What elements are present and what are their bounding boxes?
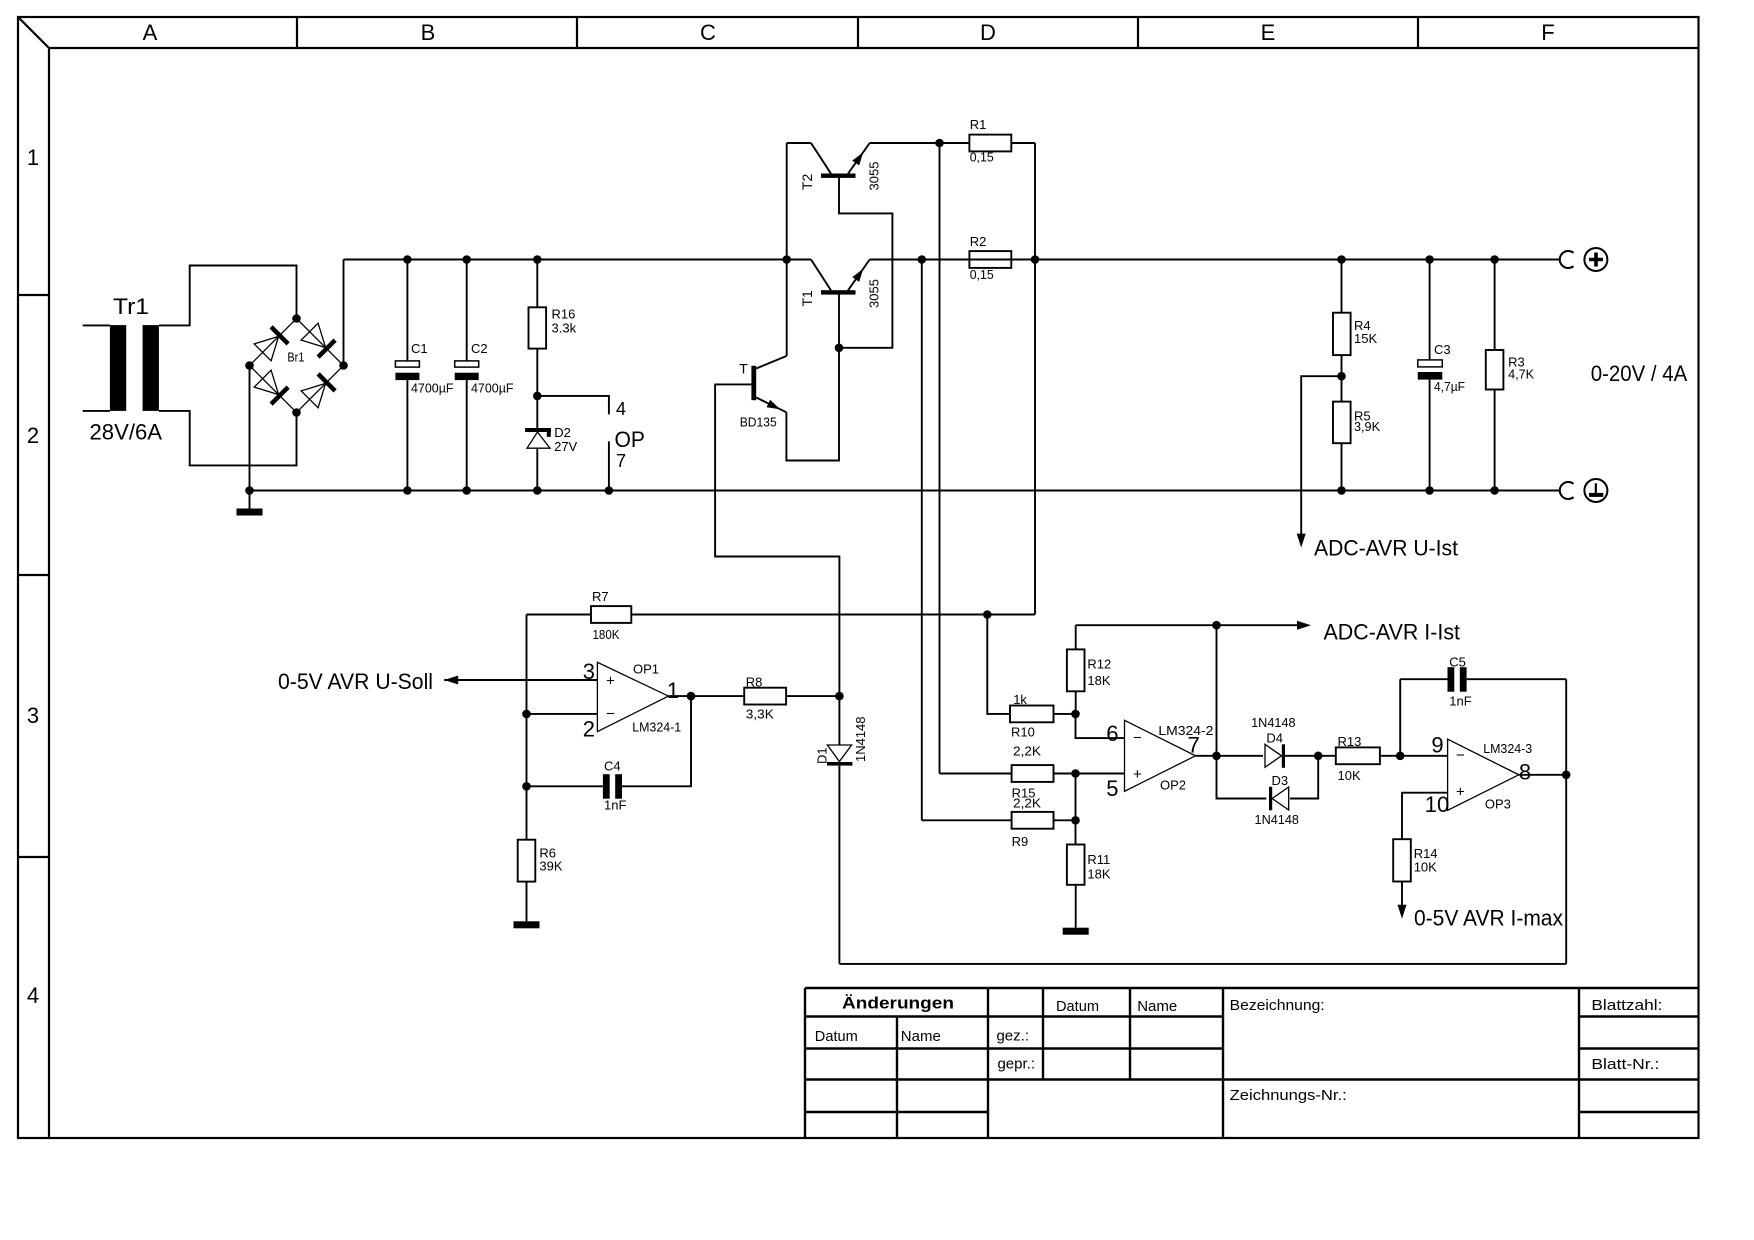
diode D3 cathode bar — [1269, 787, 1272, 811]
svg-text:D3: D3 — [1272, 773, 1289, 788]
svg-text:2: 2 — [27, 423, 39, 448]
capacitor C2 plates — [455, 361, 479, 367]
capacitor C1 leads — [406, 260, 408, 361]
svg-text:3,9K: 3,9K — [1354, 419, 1380, 434]
wire OP2 output up to I-Ist tap — [1216, 625, 1218, 756]
wire feedback vertical (R7/C4/R6 string) — [526, 615, 528, 840]
bridge diode upper-right — [301, 323, 325, 347]
wire OP1 pin3 input with arrow to AVR U-Soll — [444, 679, 597, 681]
svg-text:OP3: OP3 — [1485, 797, 1511, 812]
wire secondary bottom lead to bridge AC input — [159, 411, 297, 466]
wire T2 emitter to R1 — [870, 142, 970, 144]
resistor R9 — [1012, 812, 1054, 829]
resistor R11 — [1067, 845, 1085, 885]
wire C5 tap up — [1399, 679, 1401, 756]
transistor T collector lead — [756, 356, 787, 369]
wire R12 top lead to I-Ist line — [1075, 625, 1077, 649]
wire R5 bottom lead — [1341, 443, 1343, 490]
wire R13 right lead — [1380, 755, 1400, 757]
bridge node top junction — [292, 314, 301, 323]
svg-text:E: E — [1261, 20, 1276, 45]
svg-text:Br1: Br1 — [287, 350, 304, 365]
svg-text:0-5V AVR I-max: 0-5V AVR I-max — [1414, 906, 1563, 931]
svg-text:0-5V AVR U-Soll: 0-5V AVR U-Soll — [278, 669, 433, 694]
wire OP3 output feedback down and left to D1 — [1565, 775, 1567, 964]
junction C1 top — [403, 255, 412, 264]
bridge rectifier Br1 outline — [250, 319, 344, 413]
bridge diode lower-left — [254, 370, 278, 394]
svg-text:10K: 10K — [1338, 768, 1361, 783]
svg-text:4700µF: 4700µF — [471, 381, 514, 396]
svg-text:28V/6A: 28V/6A — [90, 420, 163, 445]
bridge node bottom junction — [292, 408, 301, 417]
resistor R5 — [1333, 402, 1351, 444]
svg-text:Name: Name — [1137, 998, 1177, 1015]
transistor T2 base bar — [821, 174, 856, 178]
wire ADC-AVR I-Ist with arrow — [1217, 624, 1298, 626]
wire C4 right lead to OP1 output — [622, 696, 691, 786]
svg-text:F: F — [1541, 20, 1554, 45]
svg-text:Datum: Datum — [815, 1028, 858, 1045]
wire T2 collector to +V vertical — [787, 142, 811, 144]
resistor R10 — [1010, 706, 1054, 723]
wire primary top lead — [83, 324, 110, 326]
bridge diode lower-right — [301, 383, 325, 407]
wire R15 right lead — [1054, 773, 1076, 775]
junction pin7 stub on ground rail — [605, 486, 614, 495]
transistor T emitter lead with arrow — [756, 398, 786, 413]
wire C5 right lead to OP3 output — [1467, 678, 1567, 680]
svg-text:4: 4 — [616, 399, 626, 419]
resistor R10 lead from R7 wire — [987, 615, 1010, 714]
svg-text:−: − — [606, 706, 615, 723]
wire bridge - output down — [249, 366, 251, 491]
transistor T (BD135) base bar — [751, 366, 756, 400]
svg-text:ADC-AVR I-Ist: ADC-AVR I-Ist — [1324, 620, 1461, 645]
resistor R1 — [969, 135, 1011, 152]
wire C4 left lead — [527, 785, 603, 787]
wire D3 to R13 node — [1290, 756, 1318, 799]
wire op-amp supply pin 4 stub — [537, 396, 609, 415]
wire R12 bottom lead — [1075, 691, 1077, 714]
junction OP1 output node — [687, 692, 696, 701]
svg-text:180K: 180K — [593, 627, 620, 642]
svg-text:LM324-1: LM324-1 — [632, 720, 681, 735]
svg-text:gepr.:: gepr.: — [997, 1056, 1035, 1073]
wire R11 bottom lead — [1075, 885, 1077, 928]
svg-text:R11: R11 — [1087, 852, 1110, 867]
junction T1/T2 base node — [835, 344, 844, 353]
svg-text:ADC-AVR U-Ist: ADC-AVR U-Ist — [1314, 536, 1458, 561]
svg-text:7: 7 — [616, 451, 626, 471]
wire R10 right lead — [1054, 713, 1076, 715]
svg-text:0-20V / 4A: 0-20V / 4A — [1591, 361, 1688, 386]
svg-text:3,3K: 3,3K — [746, 707, 774, 722]
wire R16 to D2 — [536, 349, 538, 429]
svg-text:8: 8 — [1519, 760, 1531, 785]
wire OP2 pin5 input — [1076, 773, 1125, 775]
wire OP2 pin6 input — [1076, 714, 1125, 738]
resistor R4 — [1333, 313, 1351, 355]
svg-text:R9: R9 — [1012, 834, 1029, 849]
junction R5 on ground rail — [1337, 486, 1346, 495]
svg-text:18K: 18K — [1087, 866, 1110, 881]
wire R2 right to R1 junction — [1011, 259, 1035, 261]
junction C4 left node — [522, 782, 531, 791]
title block grid — [805, 988, 1699, 1138]
svg-text:A: A — [143, 20, 158, 45]
svg-text:gez.:: gez.: — [996, 1028, 1029, 1045]
junction R16 top on rail — [533, 255, 542, 264]
svg-text:39K: 39K — [539, 858, 562, 873]
output ground terminal connector arc — [1560, 482, 1574, 499]
svg-text:3: 3 — [583, 659, 595, 684]
svg-text:0,15: 0,15 — [970, 267, 994, 282]
resistor R2 — [969, 251, 1011, 268]
frame column labels — [143, 20, 1555, 45]
junction OP3 output node — [1562, 771, 1571, 780]
wire D4 to R13 node — [1285, 755, 1318, 757]
diode D1 lead down to OP3 output line — [838, 766, 840, 964]
frame row labels — [27, 145, 39, 1008]
zener diode D2 cathode bar — [525, 430, 551, 437]
svg-text:D4: D4 — [1266, 731, 1283, 746]
transformer Tr1 secondary winding bar — [143, 325, 159, 411]
wire OP2 output — [1196, 755, 1264, 757]
svg-text:C2: C2 — [471, 341, 488, 356]
svg-text:OP: OP — [615, 427, 646, 452]
wire sense line from T2 emitter tap down to R15 — [939, 143, 941, 774]
capacitor C2 leads — [466, 260, 468, 361]
wire node to R13 — [1318, 755, 1336, 757]
svg-text:T: T — [739, 361, 748, 377]
resistor R3 bottom lead — [1494, 390, 1496, 491]
svg-text:4,7µF: 4,7µF — [1434, 379, 1465, 394]
svg-text:1k: 1k — [1013, 692, 1027, 707]
svg-text:Änderungen: Änderungen — [842, 995, 954, 1013]
capacitor C5 plates — [1448, 667, 1455, 692]
resistor R7 left lead — [527, 614, 592, 616]
svg-text:R16: R16 — [552, 307, 576, 322]
diode D1 triangle — [827, 745, 851, 762]
wire primary bottom lead — [83, 410, 110, 412]
wire base node down to driver emitter — [786, 348, 839, 461]
transistor T1 collector lead — [811, 260, 831, 291]
zener diode D2 triangle — [527, 432, 550, 448]
svg-text:R13: R13 — [1338, 734, 1362, 749]
wire R4 to R5 — [1341, 355, 1343, 402]
wire ground rail — [250, 490, 1561, 492]
diode D1 cathode bar — [827, 762, 852, 766]
svg-text:B: B — [421, 20, 436, 45]
wire D3 branch down-left — [1217, 756, 1267, 799]
junction R3 bottom on ground rail — [1490, 486, 1499, 495]
svg-text:Zeichnungs-Nr.:: Zeichnungs-Nr.: — [1230, 1087, 1347, 1104]
capacitor C3 plates — [1418, 360, 1443, 367]
diode D4 triangle — [1265, 744, 1282, 767]
junction R9/R11 node — [1071, 816, 1080, 825]
junction D4/D3/R13 node — [1314, 752, 1323, 761]
svg-text:3.3k: 3.3k — [552, 321, 577, 336]
capacitor C3 bottom lead — [1429, 380, 1431, 491]
resistor R7 — [591, 606, 631, 623]
output + terminal symbol — [1584, 248, 1607, 271]
wire R9 right lead — [1054, 819, 1076, 821]
wire op-amp supply pin 7 stub — [608, 441, 610, 490]
svg-text:3055: 3055 — [867, 162, 882, 191]
svg-text:1N4148: 1N4148 — [1255, 812, 1300, 827]
transistor T2 emitter lead with arrow — [848, 143, 870, 174]
junction R10/R12/pin6 node — [1071, 710, 1080, 719]
wire R6 bottom lead — [526, 882, 528, 922]
svg-text:4,7K: 4,7K — [1508, 367, 1534, 382]
svg-text:C4: C4 — [604, 758, 621, 773]
junction C3 top on rail — [1425, 255, 1434, 264]
op-amp OP2 triangle — [1125, 720, 1196, 791]
junction C2 bottom — [462, 486, 471, 495]
svg-text:1: 1 — [667, 678, 679, 703]
wire R14 bottom lead with arrow to AVR I-max — [1401, 882, 1403, 906]
svg-text:1N4148: 1N4148 — [853, 717, 868, 763]
bridge node right junction — [339, 361, 348, 370]
junction OP2 output node — [1212, 752, 1221, 761]
svg-text:0,15: 0,15 — [970, 150, 994, 165]
wire OP3 output — [1519, 774, 1566, 776]
junction C2 top — [462, 255, 471, 264]
wire sense line from output rail down to R9 — [921, 260, 923, 821]
svg-text:C: C — [700, 20, 716, 45]
svg-text:9: 9 — [1431, 733, 1443, 758]
svg-text:Tr1: Tr1 — [113, 294, 149, 319]
svg-text:2: 2 — [583, 717, 595, 742]
junction R1/R2/output rail/voltage feedback — [1031, 255, 1040, 264]
svg-text:R7: R7 — [592, 589, 609, 604]
svg-text:1: 1 — [27, 145, 39, 170]
wire OP1 output — [668, 695, 691, 697]
wire voltage sense vertical to output rail — [1034, 260, 1036, 615]
svg-text:1nF: 1nF — [1449, 693, 1471, 708]
wire bridge + output to rail — [343, 260, 345, 366]
resistor R6 — [518, 840, 536, 882]
svg-text:C3: C3 — [1434, 342, 1451, 357]
wire R7 right to output voltage sense — [631, 614, 1035, 616]
svg-text:2,2K: 2,2K — [1013, 796, 1041, 811]
resistor R15 — [1012, 765, 1054, 782]
wire ADC-AVR U-Ist tap with arrow — [1301, 376, 1341, 534]
wire T1 base down to common base node — [838, 295, 840, 348]
junction emitter rail to R9 sense line — [918, 255, 927, 264]
zener diode D2 bottom lead — [536, 448, 538, 490]
junction feedback node at pin2 — [522, 710, 531, 719]
wire pin9 input — [1400, 755, 1447, 757]
svg-text:6: 6 — [1106, 721, 1118, 746]
svg-text:+: + — [1456, 784, 1465, 801]
svg-text:3055: 3055 — [867, 279, 882, 308]
wire unregulated +V rail — [344, 259, 812, 261]
resistor R4 top lead — [1341, 260, 1343, 313]
transistor T2 collector lead — [811, 143, 831, 174]
svg-text:D: D — [980, 20, 996, 45]
svg-text:4700µF: 4700µF — [411, 381, 454, 396]
svg-text:−: − — [1133, 730, 1142, 747]
wire OP1 output to R8 — [691, 695, 744, 697]
svg-text:T1: T1 — [799, 290, 815, 307]
svg-text:BD135: BD135 — [740, 415, 777, 430]
wire secondary top lead to bridge AC input — [159, 266, 297, 326]
transistor T1 base bar — [821, 290, 856, 294]
svg-text:R2: R2 — [970, 234, 987, 249]
diode D3 triangle — [1272, 787, 1289, 810]
wire R1 to output rail — [1011, 142, 1035, 144]
wire output emitter rail to + terminal — [870, 259, 1560, 261]
ground symbol below R11 — [1063, 928, 1089, 935]
junction unregulated rail / T2 collector / driver collector — [782, 255, 791, 264]
svg-text:−: − — [1456, 747, 1465, 764]
junction R15/pin5 node — [1071, 769, 1080, 778]
junction R16/D2/OP supply node — [533, 392, 542, 401]
junction bridge minus on ground rail — [245, 486, 254, 495]
svg-text:3: 3 — [27, 703, 39, 728]
svg-text:Blatt-Nr.:: Blatt-Nr.: — [1591, 1056, 1659, 1073]
svg-text:+: + — [1133, 766, 1142, 783]
capacitor C1 plates — [395, 361, 419, 367]
svg-text:Datum: Datum — [1056, 998, 1099, 1015]
bridge diode upper-left — [254, 336, 278, 360]
svg-text:1N4148: 1N4148 — [1251, 715, 1296, 730]
svg-text:OP2: OP2 — [1160, 778, 1186, 793]
junction C1 bottom — [403, 486, 412, 495]
svg-text:2,2K: 2,2K — [1013, 744, 1041, 759]
op-amp OP3 triangle — [1448, 739, 1519, 810]
transformer Tr1 primary winding bar — [110, 325, 126, 411]
junction D2 on ground rail — [533, 486, 542, 495]
wire OP1 pin2 to feedback node — [527, 713, 598, 715]
svg-text:15K: 15K — [1354, 331, 1377, 346]
junction R4 on output rail — [1337, 255, 1346, 264]
op-amp OP1 triangle — [597, 662, 668, 731]
transistor T1 emitter lead with arrow — [848, 260, 870, 291]
junction R4/R5 divider node — [1337, 372, 1346, 381]
wire T2 base routing — [839, 178, 892, 348]
svg-text:C5: C5 — [1449, 654, 1466, 669]
svg-text:+: + — [606, 673, 615, 690]
capacitor C3 top lead — [1429, 260, 1431, 360]
resistor R12 — [1067, 649, 1085, 691]
svg-text:LM324-3: LM324-3 — [1483, 741, 1532, 756]
junction current-sense tap on T2 emitter wire — [935, 139, 944, 148]
junction C3 bottom on ground rail — [1425, 486, 1434, 495]
svg-text:OP1: OP1 — [633, 662, 659, 677]
svg-text:10: 10 — [1425, 792, 1449, 817]
ground symbol at bridge — [249, 491, 251, 510]
output ground terminal symbol — [1584, 479, 1607, 502]
svg-text:D1: D1 — [815, 747, 830, 764]
svg-text:10K: 10K — [1414, 859, 1437, 874]
junction R10 tap on R7 wire — [983, 610, 992, 619]
diode D4 cathode bar — [1282, 744, 1285, 768]
resistor R3 top lead — [1494, 260, 1496, 351]
wire T base routing to D1/R8 node — [715, 384, 839, 744]
svg-text:1nF: 1nF — [604, 798, 626, 813]
ground symbol below R6 — [514, 921, 540, 928]
svg-text:7: 7 — [1188, 733, 1200, 758]
resistor R16 — [529, 307, 547, 348]
svg-text:18K: 18K — [1087, 673, 1110, 688]
resistor R8 — [744, 688, 786, 705]
bridge node left junction — [245, 361, 254, 370]
svg-text:T2: T2 — [799, 173, 815, 190]
junction R3 top on rail — [1490, 255, 1499, 264]
junction R8/D1/base-drive node — [835, 692, 844, 701]
wire pin10 input — [1402, 793, 1448, 840]
svg-text:Name: Name — [901, 1028, 941, 1045]
wire pin5 node down to R11 — [1075, 774, 1077, 845]
svg-text:D2: D2 — [554, 425, 571, 440]
wire R8 right lead — [786, 695, 839, 697]
resistor R14 — [1393, 839, 1411, 881]
svg-text:R10: R10 — [1011, 725, 1035, 740]
svg-text:4: 4 — [27, 983, 39, 1008]
svg-text:5: 5 — [1106, 776, 1118, 801]
resistor R13 — [1336, 747, 1380, 764]
junction I-Ist tap on OP2 feedback — [1212, 621, 1221, 630]
svg-text:LM324-2: LM324-2 — [1158, 723, 1213, 738]
resistor R3 — [1486, 350, 1504, 390]
svg-text:Blattzahl:: Blattzahl: — [1591, 997, 1662, 1014]
junction R13/C5/pin9 node — [1396, 752, 1405, 761]
capacitor C4 plates — [603, 774, 610, 799]
svg-text:R1: R1 — [970, 117, 987, 132]
svg-text:C1: C1 — [411, 341, 428, 356]
svg-text:27V: 27V — [554, 439, 577, 454]
svg-text:R8: R8 — [746, 675, 763, 690]
svg-text:R12: R12 — [1087, 657, 1111, 672]
output + terminal connector arc — [1560, 251, 1574, 268]
svg-text:Bezeichnung:: Bezeichnung: — [1230, 997, 1325, 1014]
resistor R16 top lead — [536, 260, 538, 308]
